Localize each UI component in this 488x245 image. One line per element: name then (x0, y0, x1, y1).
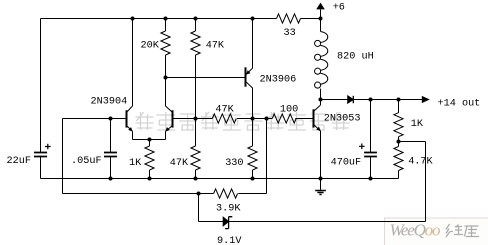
wire feedback right vertical (425, 142, 427, 222)
wire inductor bottom lead (320, 89, 322, 100)
wire zener branch down (198, 194, 200, 222)
svg-text:820 uH: 820 uH (337, 52, 374, 63)
label 2N3053 (324, 114, 361, 125)
resistor 330 (248, 119, 257, 179)
label 47K middle (215, 105, 234, 116)
wire top rail right segment (301, 18, 321, 20)
ground symbol (315, 179, 326, 195)
label 820 uH (337, 52, 374, 63)
wire rail B to 3.9K (63, 193, 214, 195)
wire mid line Q2 base to 47K (173, 118, 213, 120)
+14 out arrow (422, 96, 430, 103)
wire 2N3906 emitter riser (252, 19, 254, 69)
svg-text:+6: +6 (333, 2, 345, 13)
wire +6 stem (320, 10, 322, 19)
svg-text:330: 330 (225, 158, 243, 169)
label 22uF (7, 156, 31, 167)
label 2N3904 (91, 97, 128, 108)
resistor 47K middle (212, 114, 236, 123)
wire output line right (353, 99, 422, 101)
svg-text:.05uF: .05uF (71, 156, 102, 167)
resistor 47K lower (191, 119, 200, 179)
resistor 3.9K (214, 189, 238, 198)
label 4.7K (408, 157, 433, 168)
svg-text:3.9K: 3.9K (216, 204, 241, 215)
wire 2N3053 emitter down (320, 131, 322, 179)
svg-text:470uF: 470uF (331, 158, 362, 169)
svg-text:+14 out: +14 out (438, 99, 481, 110)
svg-text:22uF: 22uF (7, 156, 31, 167)
svg-text:2N3906: 2N3906 (260, 75, 297, 86)
WeeQoo logo box (385, 218, 488, 245)
wire Q2 collector riser (165, 78, 167, 107)
wire ground rail A (41, 178, 399, 180)
svg-text:4.7K: 4.7K (408, 157, 433, 168)
label 33 (284, 28, 296, 39)
capacitor C1 22uF electrolytic (34, 144, 51, 157)
label 2N3906 (260, 75, 297, 86)
resistor 33 (277, 14, 301, 23)
svg-text:2N3053: 2N3053 (324, 114, 361, 125)
transistor Q3 2N3906 PNP (246, 67, 253, 88)
wire 470uF top lead (370, 100, 372, 153)
wire emitters join (133, 139, 166, 141)
wire .05uF bottom lead (110, 157, 112, 179)
wire 22uF bottom lead (40, 157, 42, 179)
wire zener line right (229, 221, 426, 223)
wire inductor top lead (320, 19, 322, 32)
resistor 1K output (394, 100, 403, 142)
zener diode D2 9.1V (223, 217, 232, 229)
label .05uF (71, 156, 102, 167)
resistor 1K emitter (145, 140, 154, 179)
label 47K upper (206, 40, 225, 51)
transistor Q4 2N3053 (314, 105, 321, 131)
resistor 47K upper (191, 19, 200, 119)
label +6 (333, 2, 345, 13)
label 3.9K (216, 204, 241, 215)
wire mid line Q1 base (63, 118, 127, 120)
wire Q2 emitter down (165, 131, 167, 139)
label 1K emitter (129, 158, 142, 169)
capacitor C2 .05uF (104, 153, 117, 157)
label 470uF (331, 158, 362, 169)
label +14 out (438, 99, 481, 110)
wire 3.9K to corner (238, 193, 266, 195)
diode D1 output rectifier (348, 96, 354, 103)
svg-text:1K: 1K (129, 158, 142, 169)
wire 2N3906 collector down (252, 88, 254, 119)
wire zener line left (199, 221, 224, 223)
svg-text:47K: 47K (206, 40, 225, 51)
resistor 4.7K (394, 142, 403, 179)
wire 2N3053 collector up (320, 100, 322, 106)
wire Q1 emitter down (132, 131, 134, 139)
wire top rail left segment (41, 18, 277, 20)
svg-text:9.1V: 9.1V (217, 236, 242, 245)
label 1K output (411, 119, 424, 130)
wire left vertical to 22uF (40, 19, 42, 153)
svg-text:20K: 20K (141, 40, 160, 51)
wire corner up to mid line (266, 119, 268, 194)
label 20K (141, 40, 160, 51)
inductor L1 820uH coil (315, 32, 328, 89)
transistor Q1 2N3904 left of diff pair (127, 106, 133, 132)
wire 470uF bottom lead (370, 157, 372, 179)
label 9.1V (217, 236, 242, 245)
transistor Q2 2N3904 right of diff pair mirrored (165, 106, 172, 132)
capacitor C3 470uF electrolytic (359, 144, 377, 157)
svg-text:47K: 47K (215, 105, 234, 116)
label 47K lower (170, 158, 189, 169)
+6 supply arrow (316, 3, 325, 10)
label 100 (280, 105, 298, 116)
wire .05uF top lead (110, 119, 112, 153)
WeeQoo logo text (390, 221, 440, 240)
svg-text:33: 33 (284, 28, 296, 39)
watermark grey text band (136, 112, 350, 130)
svg-text:47K: 47K (170, 158, 189, 169)
resistor 20K (161, 19, 170, 78)
label 330 (225, 158, 243, 169)
wire mid line 100 to 2N3053 base (295, 118, 313, 120)
svg-text:WeeQoo: WeeQoo (390, 221, 440, 240)
wire divider tap (399, 141, 426, 143)
svg-text:1K: 1K (411, 119, 424, 130)
wire Q1 collector riser (132, 19, 134, 107)
svg-text:2N3904: 2N3904 (91, 97, 128, 108)
wire feedback left vertical (62, 119, 64, 194)
wire mid line 47K to 100 (237, 118, 272, 120)
wire 2N3906 base line (166, 77, 246, 79)
svg-text:100: 100 (280, 105, 298, 116)
wire output line left (321, 99, 348, 101)
WeeQoo logo chinese 维库 (446, 224, 479, 237)
resistor 100 (272, 114, 296, 123)
